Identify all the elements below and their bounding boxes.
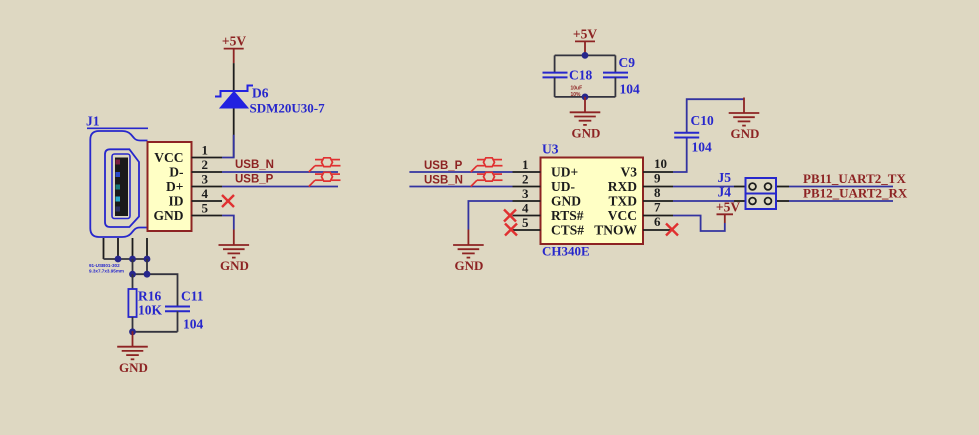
svg-text:10uF: 10uF (571, 86, 583, 92)
no-connect X on U3 pin 6 (666, 224, 678, 236)
svg-text:104: 104 (183, 317, 204, 332)
svg-text:R16: R16 (138, 289, 161, 304)
connector J1 shell outline (90, 131, 147, 237)
J1 pin 5 stub (192, 215, 223, 217)
U3 pin 6 stub (643, 229, 673, 231)
svg-text:GND: GND (119, 360, 148, 375)
ground (U3 pin3) (453, 230, 484, 274)
svg-text:2: 2 (522, 172, 529, 187)
svg-text:VCC: VCC (154, 150, 183, 165)
header J5 (718, 170, 790, 194)
wire U3 pin7 to +5V (673, 216, 725, 232)
svg-text:1: 1 (522, 157, 529, 172)
diff pair directive on USB_P (309, 172, 341, 186)
svg-text:D+: D+ (166, 179, 183, 194)
svg-text:USB_N: USB_N (424, 175, 463, 187)
wire USB_P from J1 pin3 (222, 186, 338, 188)
svg-text:C9: C9 (619, 55, 636, 70)
U3 pin 3 stub (513, 200, 541, 202)
wire bottom rail (555, 96, 616, 98)
capacitor C11 (165, 307, 190, 312)
wire right branch down (614, 55, 616, 72)
svg-text:GND: GND (551, 194, 581, 209)
resistor R16 (132, 274, 134, 289)
diff pair directive (right top) (471, 158, 503, 172)
svg-text:4: 4 (522, 201, 529, 216)
U3 pin 5 stub (513, 229, 541, 231)
connector J1 pin contacts (116, 160, 121, 212)
ground (J1 pin5) (219, 230, 250, 274)
junction dot bottom (129, 328, 136, 335)
wire USB_N from J1 pin2 (222, 171, 338, 173)
svg-text:CH340E: CH340E (542, 244, 590, 259)
no-connect X on U3 pin 4 (504, 210, 516, 222)
svg-text:104: 104 (692, 140, 713, 155)
svg-text:7: 7 (654, 200, 661, 215)
svg-text:8: 8 (654, 185, 661, 200)
power +5V (C18/C9) (573, 27, 597, 56)
svg-text:5: 5 (202, 200, 209, 215)
J1 pin 2 stub (192, 171, 223, 173)
svg-text:UD-: UD- (551, 179, 575, 194)
svg-text:RTS#: RTS# (551, 208, 584, 223)
svg-text:J4: J4 (718, 185, 732, 200)
svg-text:U3: U3 (542, 142, 559, 157)
U3 pin 9 stub (643, 186, 673, 188)
no-connect X on U3 pin 5 (505, 224, 517, 236)
svg-text:C18: C18 (569, 68, 592, 83)
wire PB11_UART2_TX (789, 186, 893, 188)
connector J1 body box (148, 142, 192, 231)
U3 pin 7 stub (643, 215, 673, 217)
svg-text:9: 9 (654, 171, 661, 186)
J1 pin 3 stub (192, 186, 223, 188)
power +5V (above D6) (222, 34, 246, 64)
wire U3 pin3 to ground (468, 201, 512, 230)
svg-text:10K: 10K (138, 303, 163, 318)
svg-text:J1: J1 (86, 114, 100, 129)
wire U3 pin8 to J4 (673, 200, 734, 202)
U3 pin 2 stub (513, 186, 541, 188)
svg-text:91-USB01-302: 91-USB01-302 (89, 263, 120, 268)
svg-text:PB11_UART2_TX: PB11_UART2_TX (803, 171, 906, 186)
svg-text:SDM20U30-7: SDM20U30-7 (250, 101, 326, 116)
capacitor C18 (543, 73, 568, 78)
wire U3 pin10 to C10 (673, 138, 687, 173)
wire U3 pin9 to J5 (673, 186, 734, 188)
IC U3 body box (541, 158, 644, 245)
diode D6 (Schottky, pointing up) (215, 86, 253, 109)
svg-text:GND: GND (154, 208, 184, 223)
connector J1 pin slot black bar (115, 158, 128, 217)
power +5V (U3 pin7) (716, 200, 740, 224)
svg-text:9.3x7.7x3.95mm: 9.3x7.7x3.95mm (89, 269, 124, 274)
svg-text:ID: ID (168, 194, 183, 209)
J1 pin 1 stub (192, 157, 223, 159)
svg-text:10: 10 (654, 156, 667, 171)
diff pair directive (right bottom) (471, 172, 503, 186)
no-connect X on J1 pin 4 (222, 195, 234, 207)
connector J1 inner profile (105, 149, 139, 227)
svg-text:1: 1 (202, 142, 209, 157)
ground (R16/C11) (117, 331, 148, 375)
svg-text:USB_P: USB_P (424, 160, 463, 172)
svg-text:+5V: +5V (222, 34, 246, 49)
wire row1 to row2 verticals (132, 259, 134, 274)
wire C10 top to ground (687, 99, 744, 133)
wire left branch down (554, 55, 556, 72)
svg-text:+5V: +5V (573, 27, 597, 42)
svg-text:PB12_UART2_RX: PB12_UART2_RX (803, 186, 908, 201)
svg-text:C10: C10 (691, 113, 714, 128)
svg-text:D6: D6 (252, 86, 269, 101)
svg-text:UD+: UD+ (551, 165, 578, 180)
wire bottom row R16/C11 (133, 331, 178, 333)
svg-text:3: 3 (522, 186, 529, 201)
connector J1 shell pin stubs (104, 238, 148, 259)
svg-text:USB_P: USB_P (235, 174, 274, 186)
svg-text:4: 4 (202, 186, 209, 201)
junction dots row2 (129, 271, 150, 278)
wire top rail (555, 54, 616, 56)
U3 pin 10 stub (643, 171, 673, 173)
U3 pin 4 stub (513, 215, 541, 217)
svg-text:VCC: VCC (608, 208, 637, 223)
svg-text:V3: V3 (621, 165, 638, 180)
svg-text:GND: GND (731, 126, 760, 141)
wire PB12_UART2_RX (789, 200, 893, 202)
svg-text:104: 104 (620, 82, 641, 97)
wire row2 to C11 (133, 274, 178, 306)
junction dot top rail (582, 52, 589, 59)
svg-text:TXD: TXD (608, 194, 637, 209)
connector J1 graphic line (87, 127, 148, 129)
diff pair directive on USB_N (309, 158, 341, 172)
J1 pin 4 stub (192, 200, 223, 202)
svg-text:CTS#: CTS# (551, 223, 584, 238)
ground (C10) (729, 98, 760, 142)
capacitor C10 (674, 133, 699, 138)
svg-text:GND: GND (455, 258, 484, 273)
svg-text:GND: GND (572, 126, 601, 141)
svg-text:D-: D- (169, 165, 183, 180)
svg-text:C11: C11 (181, 289, 204, 304)
svg-text:USB_N: USB_N (235, 159, 274, 171)
svg-text:3: 3 (202, 171, 209, 186)
svg-text:+5V: +5V (716, 200, 740, 215)
capacitor C9 (603, 73, 628, 78)
U3 pin 8 stub (643, 200, 673, 202)
svg-text:2: 2 (202, 157, 209, 172)
junction dots row1 (115, 256, 151, 263)
wire J1 pin5 to ground (222, 216, 234, 230)
header J4 (718, 185, 790, 210)
svg-text:GND: GND (220, 258, 249, 273)
svg-text:J5: J5 (718, 170, 732, 185)
wire diode anode to J1 pin1 (233, 109, 235, 158)
wire +5V to diode cathode (233, 63, 235, 91)
connector J1 pin slot outline (112, 154, 130, 219)
ground (C18/C9) (570, 97, 601, 141)
wire USB_N into U3 pin2 (409, 186, 512, 188)
svg-text:TNOW: TNOW (594, 223, 637, 238)
svg-text:6: 6 (654, 214, 661, 229)
svg-text:RXD: RXD (608, 179, 637, 194)
svg-text:5: 5 (522, 215, 529, 230)
wire USB_P into U3 pin1 (409, 171, 512, 173)
wire shell bus row1 (104, 258, 148, 260)
junction dot bottom rail (582, 94, 589, 101)
wire (blue) corner to pin1 (222, 135, 234, 158)
U3 pin 1 stub (513, 171, 541, 173)
